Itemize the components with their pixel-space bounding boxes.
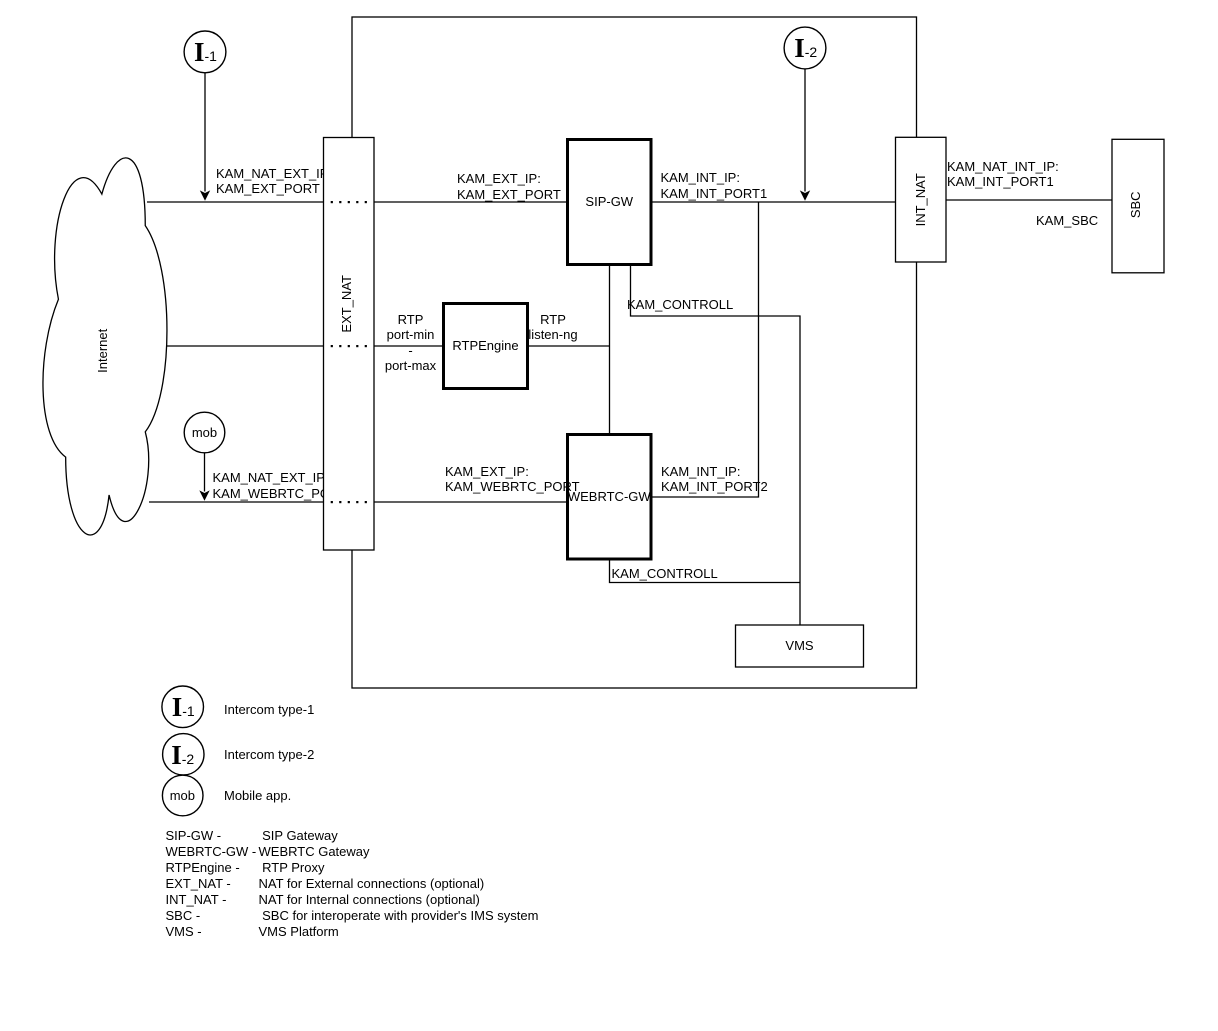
legend label Mobile app. [224, 788, 291, 804]
system boundary rectangle [352, 17, 917, 688]
legend mobile app circle [162, 775, 203, 816]
wire: internet to EXT_NAT to SIP-GW to INT_NAT (y=202) [147, 201, 896, 203]
legend text I-1 [172, 694, 195, 721]
label RTPEngine [444, 338, 528, 354]
wire: WEBRTC-GW right to KAM_INT line (up to y=202) [653, 202, 759, 497]
label KAM_CONTROLL (WEBRTC-GW) [612, 566, 718, 582]
label INT_NAT (rotated) [913, 169, 929, 229]
label SBC (rotated) [1128, 175, 1144, 235]
mobile app circle [184, 412, 225, 453]
label SIP-GW [568, 194, 652, 210]
label Internet (rotated) [95, 321, 111, 381]
label KAM_INT_IP / KAM_INT_PORT2 (right of WEBRTC-GW) [661, 464, 768, 495]
EXT_NAT pass-through dots row 3 [331, 501, 367, 503]
text I-1 in circle [194, 39, 217, 66]
VMS box [736, 625, 864, 667]
EXT_NAT box [324, 138, 375, 551]
INT_NAT box [896, 137, 947, 262]
legend text I-2 [171, 742, 194, 769]
intercom I-2 circle [784, 27, 826, 69]
internet cloud [43, 158, 167, 535]
legend intercom I-1 circle [162, 686, 204, 728]
wire: SIP-GW bottom to WEBRTC-GW top vertical [609, 266, 611, 433]
legend abbreviation list [166, 828, 257, 939]
text mob in circle [175, 425, 235, 441]
label KAM_NAT_EXT_IP / KAM_EXT_PORT (clipped by EXT_NAT) [216, 166, 324, 197]
legend label Intercom type-2 [224, 747, 314, 763]
label KAM_NAT_INT_IP / KAM_INT_PORT1 (right of INT_NAT) [947, 159, 1059, 190]
label RTP port-min - port-max [366, 312, 456, 374]
wire: INT_NAT to SBC (y=200) [946, 199, 1112, 201]
label WEBRTC-GW [568, 489, 652, 505]
arrow from intercom I-1 [200, 73, 210, 201]
label EXT_NAT (rotated) [339, 274, 355, 334]
label KAM_INT_IP / KAM_INT_PORT1 (right of SIP-GW) [661, 170, 768, 201]
text I-2 in circle [794, 35, 817, 62]
wire: internet to EXT_NAT to RTPEngine (y=346) [160, 345, 610, 347]
label KAM_CONTROLL (SIP-GW) [627, 297, 733, 313]
SIP-GW box [568, 140, 652, 265]
label KAM_EXT_IP / KAM_EXT_PORT (left of SIP-GW) [457, 171, 561, 202]
WEBRTC-GW box [568, 435, 652, 560]
label KAM_NAT_EXT_IP / KAM_WEBRTC_PORT (clipped by EXT_NAT) [213, 470, 324, 501]
legend text mob [170, 788, 195, 804]
wire: KAM_CONTROLL from SIP-GW down to VMS [631, 266, 801, 625]
RTPEngine box [444, 304, 528, 389]
arrow from mobile app [199, 453, 209, 501]
wire: KAM_CONTROLL from WEBRTC-GW [610, 561, 801, 583]
label RTP listen-ng [518, 312, 588, 343]
label KAM_SBC [1036, 213, 1098, 229]
arrow from intercom I-2 [800, 69, 810, 201]
intercom I-1 circle [184, 31, 226, 73]
label KAM_EXT_IP / KAM_WEBRTC_PORT (left of WEBRTC-GW) [445, 464, 580, 495]
wire: internet to EXT_NAT to WEBRTC-GW (y=502) [149, 501, 566, 503]
legend intercom I-2 circle [163, 734, 204, 775]
legend label Intercom type-1 [224, 702, 314, 718]
SBC box [1112, 139, 1164, 272]
EXT_NAT pass-through dots row 1 [331, 201, 367, 203]
label VMS [736, 638, 864, 654]
EXT_NAT pass-through dots row 2 [331, 345, 367, 347]
